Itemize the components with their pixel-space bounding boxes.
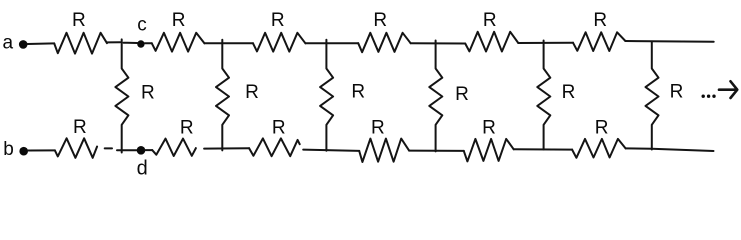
resistor R11 (bottom series) xyxy=(464,139,514,162)
resistor Rv3 (vertical shunt) xyxy=(320,40,333,151)
resistor R9 (bottom series) xyxy=(249,138,300,156)
svg-text:R: R xyxy=(482,117,496,138)
wire R11 to R12 xyxy=(514,148,572,150)
wire R5 to R6 xyxy=(518,42,573,44)
wire R10 to R11 xyxy=(409,150,464,152)
wire a to R1 xyxy=(28,42,55,45)
svg-text:R: R xyxy=(172,10,186,31)
wire R2 to R3 xyxy=(204,42,253,44)
svg-text:a: a xyxy=(3,33,14,54)
svg-text:R: R xyxy=(72,10,86,31)
svg-text:R: R xyxy=(180,117,194,138)
wire top rail right end xyxy=(625,40,713,43)
resistor R7 (bottom series) xyxy=(55,138,97,158)
wire b to R7 xyxy=(28,149,55,151)
node b xyxy=(19,147,28,156)
svg-text:R: R xyxy=(271,10,285,31)
resistor Rv5 (vertical shunt) xyxy=(537,41,550,150)
resistor R10 (bottom series) xyxy=(359,139,409,162)
node c xyxy=(137,40,144,47)
wire bottom rail right end xyxy=(626,148,714,151)
resistor Rv2 (vertical shunt) xyxy=(216,40,229,151)
svg-text:R: R xyxy=(272,117,286,138)
svg-text:R: R xyxy=(593,10,607,31)
wire R1 to node c with junction break xyxy=(107,41,120,43)
svg-text:R: R xyxy=(73,117,87,138)
resistor R8 (bottom series) xyxy=(152,139,196,156)
svg-text:R: R xyxy=(595,117,609,138)
resistor R2 (top series) xyxy=(152,33,205,52)
wire R9 to R10 xyxy=(303,150,359,151)
svg-text:R: R xyxy=(373,10,387,31)
node d xyxy=(137,146,146,155)
svg-text:R: R xyxy=(351,82,365,103)
wire R4 to R5 xyxy=(411,42,466,44)
wire dash R7 to node d xyxy=(105,147,112,149)
wire node c to R2 xyxy=(145,42,152,44)
resistor R3 (top series) xyxy=(253,33,305,52)
wire to node d xyxy=(117,149,137,151)
svg-text:R: R xyxy=(371,117,385,138)
resistor R6 (top series) xyxy=(573,32,625,51)
node a xyxy=(19,40,28,49)
svg-text:d: d xyxy=(137,157,148,179)
svg-text:R: R xyxy=(455,84,469,105)
resistor Rv6 (vertical shunt) xyxy=(646,42,659,150)
svg-text:R: R xyxy=(562,82,576,103)
resistor Rv1 (vertical shunt) xyxy=(115,39,128,152)
svg-text:c: c xyxy=(137,14,147,35)
svg-text:R: R xyxy=(245,82,259,103)
resistor Rv4 (vertical shunt) xyxy=(429,41,442,152)
ellipsis continuation dots xyxy=(702,95,705,98)
svg-text:b: b xyxy=(3,139,14,160)
svg-text:R: R xyxy=(483,10,497,31)
resistor R4 (top series) xyxy=(358,33,410,52)
resistor R12 (bottom series) xyxy=(572,139,626,158)
svg-text:R: R xyxy=(141,83,155,104)
wire R8 to R9 xyxy=(204,147,249,149)
resistor R1 (top series) xyxy=(54,33,107,54)
wire R3 to R4 xyxy=(305,42,358,44)
svg-text:R: R xyxy=(670,82,684,103)
resistor R5 (top series) xyxy=(465,32,518,52)
continuation arrow xyxy=(719,81,737,98)
wire node d to R8 xyxy=(145,149,152,151)
